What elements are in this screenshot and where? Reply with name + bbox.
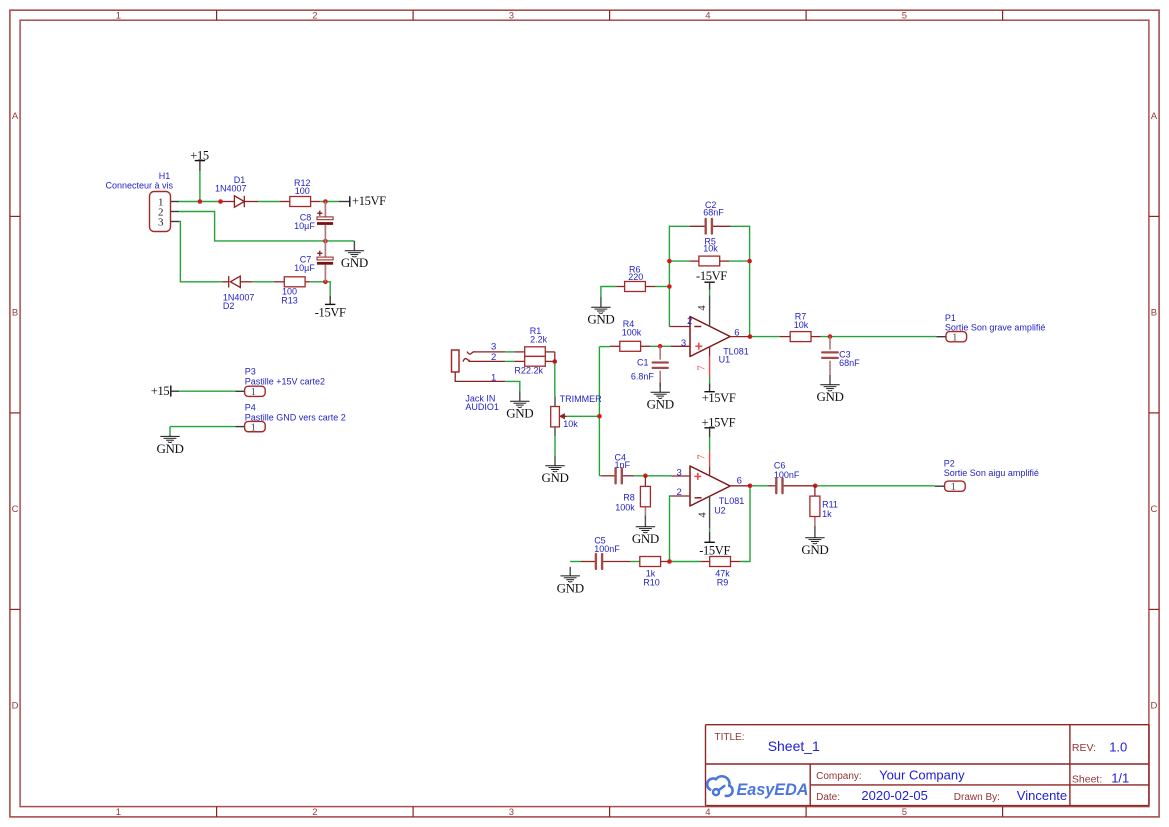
ground GND (jack): [506, 391, 533, 421]
junction feedback/R5 right: [747, 259, 752, 264]
svg-text:-15VF: -15VF: [315, 305, 346, 319]
junction R4/C1/U1 pin3: [658, 344, 663, 349]
svg-text:GND: GND: [541, 470, 568, 485]
U1 pin 7 (V+): [697, 347, 710, 378]
wire H1 pin3 to D2: [179, 222, 222, 282]
wire U2 pin4 to -15VF: [709, 528, 711, 532]
wire +15VF to U2 pin7: [709, 437, 711, 451]
junction C7/R13/-15VF node: [323, 280, 328, 285]
svg-text:100: 100: [295, 186, 310, 196]
svg-text:C: C: [12, 504, 19, 515]
pad P2 Sortie Son aigu amplifié: [935, 458, 1039, 493]
wire feedback to U2 pin2: [670, 496, 673, 562]
svg-text:2: 2: [491, 352, 496, 363]
potentiometer TRIMMER 10k: [551, 394, 602, 436]
svg-text:A: A: [12, 111, 19, 122]
junction R7/C3/P1 node: [828, 334, 833, 339]
wire R13 to -15VF node: [310, 282, 330, 296]
wire D2 to R13: [252, 281, 274, 283]
U2 pin 7 (V+): [697, 451, 710, 476]
svg-text:6.8nF: 6.8nF: [631, 371, 655, 381]
U1 pin 4 (V-): [697, 295, 709, 326]
wire R12 to +15VF node: [320, 201, 339, 203]
ground GND (R11): [801, 526, 828, 557]
wire R5 right: [729, 260, 750, 262]
svg-text:GND: GND: [557, 580, 584, 595]
wire R7 to P1: [821, 336, 937, 338]
svg-text:10k: 10k: [703, 244, 718, 254]
svg-text:-15VF: -15VF: [699, 544, 730, 558]
resistor R4 100k: [610, 319, 651, 351]
svg-text:P2: P2: [944, 458, 955, 468]
junction R1/R2/trimmer: [553, 359, 558, 364]
svg-text:EasyEDA: EasyEDA: [737, 781, 809, 799]
svg-text:4: 4: [698, 512, 709, 518]
capacitor C7 10uF polarized: [294, 241, 333, 282]
svg-text:2.2k: 2.2k: [530, 335, 548, 345]
ground GND (C3): [816, 375, 843, 404]
svg-text:Company:: Company:: [816, 771, 862, 782]
svg-text:2: 2: [677, 487, 682, 498]
svg-text:220: 220: [628, 272, 643, 282]
svg-text:Date:: Date:: [816, 792, 840, 803]
svg-text:GND: GND: [156, 441, 183, 456]
svg-text:10µF: 10µF: [294, 263, 315, 273]
svg-text:-15VF: -15VF: [696, 269, 727, 283]
ground GND (P4): [156, 427, 183, 456]
svg-text:C: C: [1150, 504, 1157, 515]
capacitor C6 100nF: [768, 461, 815, 494]
capacitor C2 68nF: [690, 200, 731, 234]
svg-text:GND: GND: [816, 389, 843, 404]
resistor R11 1k: [810, 486, 838, 526]
svg-text:Your Company: Your Company: [879, 767, 965, 782]
svg-text:H1: H1: [159, 171, 171, 181]
svg-text:68nF: 68nF: [839, 358, 860, 368]
svg-text:R10: R10: [643, 577, 660, 587]
wire +15 to pin1 net: [199, 171, 201, 202]
svg-text:Sortie Son grave amplifié: Sortie Son grave amplifié: [945, 322, 1046, 332]
capacitor C8 10uF polarized: [294, 202, 333, 242]
power flag -15VF (U2): [699, 532, 730, 558]
svg-text:Drawn By:: Drawn By:: [954, 792, 1000, 803]
svg-text:3: 3: [509, 10, 514, 21]
resistor R13 100: [274, 277, 310, 306]
svg-text:A: A: [1151, 111, 1158, 122]
EasyEDA logo: [707, 776, 808, 799]
wire trimmer wiper: [566, 415, 599, 417]
wire to R4: [599, 346, 610, 348]
svg-text:1: 1: [116, 10, 121, 21]
svg-text:P4: P4: [245, 402, 256, 412]
title block: [706, 725, 1150, 806]
capacitor C1 6.8nF: [631, 346, 668, 387]
connector H1 Connecteur à vis: [105, 171, 179, 232]
ground GND (trimmer): [541, 456, 568, 486]
junction feedback/R5 left: [667, 259, 672, 264]
svg-text:100nF: 100nF: [774, 470, 800, 480]
diode D2 1N4007: [222, 276, 254, 311]
net flag +15VF (power): [339, 194, 386, 208]
wire R1R2 node to trimmer: [554, 362, 556, 397]
junction U2 output node: [748, 484, 753, 489]
wire U2 out to C6: [750, 485, 768, 487]
svg-text:6: 6: [737, 475, 742, 486]
svg-text:1/1: 1/1: [1111, 770, 1129, 785]
svg-text:R13: R13: [281, 295, 298, 305]
svg-text:2: 2: [687, 316, 692, 327]
svg-text:U1: U1: [719, 354, 731, 364]
svg-text:Sheet_1: Sheet_1: [768, 738, 820, 754]
svg-text:3: 3: [677, 467, 682, 478]
svg-text:R2: R2: [514, 366, 526, 376]
resistor R12 100: [280, 178, 320, 207]
wire R6 to feedback node: [655, 286, 669, 288]
svg-text:1: 1: [251, 386, 257, 398]
svg-text:GND: GND: [632, 531, 659, 546]
junction C8/C7/GND rail: [323, 239, 328, 244]
svg-text:10µF: 10µF: [294, 221, 315, 231]
wire H1 pin2 to GND rail: [179, 212, 354, 241]
ground GND (power rail): [341, 241, 368, 270]
svg-text:4: 4: [705, 807, 710, 818]
wire C5 to R10: [631, 561, 640, 563]
wire +15 to P3: [179, 390, 235, 392]
svg-text:3: 3: [158, 217, 164, 229]
resistor R7 10k: [780, 311, 821, 341]
wire C2 to output vertical: [731, 226, 750, 336]
resistor R9 47k: [700, 557, 740, 588]
svg-text:100k: 100k: [622, 328, 642, 338]
svg-text:REV:: REV:: [1072, 742, 1096, 754]
power flag -15VF (U1): [696, 269, 727, 290]
pad P1 Sortie Son grave amplifié: [936, 313, 1045, 344]
audio jack AUDIO1 Jack IN: [452, 341, 506, 412]
svg-text:1.0: 1.0: [1109, 740, 1127, 755]
svg-text:Sortie Son aigu amplifié: Sortie Son aigu amplifié: [944, 468, 1039, 478]
power flag +15VF (U2): [702, 416, 736, 438]
svg-text:10k: 10k: [563, 419, 578, 429]
svg-text:7: 7: [697, 365, 708, 370]
svg-text:Sheet:: Sheet:: [1072, 773, 1102, 785]
svg-text:6: 6: [734, 327, 739, 338]
svg-text:2: 2: [312, 807, 317, 818]
svg-text:+15VF: +15VF: [702, 391, 736, 405]
svg-text:R8: R8: [623, 493, 635, 503]
svg-text:4: 4: [705, 10, 710, 21]
capacitor C3 68nF: [822, 337, 860, 375]
junction trimmer wiper node: [597, 414, 602, 419]
wire C6 to P2: [815, 485, 935, 487]
svg-text:U2: U2: [714, 505, 726, 515]
ground GND (C5): [557, 567, 584, 595]
wire jack pin1 to GND: [505, 381, 520, 391]
svg-text:GND: GND: [506, 406, 533, 421]
svg-text:7: 7: [697, 454, 708, 459]
U2 pin 4 (V-): [698, 496, 710, 528]
svg-text:P3: P3: [245, 367, 256, 377]
wire H1 pin1 to D1: [179, 201, 222, 203]
svg-text:1N4007: 1N4007: [215, 184, 247, 194]
wire R6 to GND: [601, 287, 617, 298]
wire vertical to C4: [599, 475, 601, 477]
svg-text:100k: 100k: [615, 502, 635, 512]
junction feedback/R6: [667, 284, 672, 289]
resistor R10 1k: [640, 557, 669, 588]
wire U1 out to R7: [750, 336, 780, 338]
junction pin1 wire joint: [218, 199, 223, 204]
wire -15VF to U1 pin4: [709, 290, 711, 296]
svg-text:5: 5: [902, 10, 907, 21]
svg-text:1: 1: [491, 373, 496, 384]
pad P3 Pastille +15V carte2: [236, 367, 325, 399]
svg-text:68nF: 68nF: [703, 208, 724, 218]
op-amp U2 TL081: [672, 466, 751, 515]
junction R10/R9/U2 pin2: [667, 559, 672, 564]
svg-text:10k: 10k: [794, 320, 809, 330]
svg-text:D: D: [1150, 700, 1157, 711]
svg-text:5: 5: [902, 807, 907, 818]
wire GND to C5: [570, 561, 581, 563]
svg-text:1: 1: [116, 807, 121, 818]
svg-text:AUDIO1: AUDIO1: [465, 402, 499, 412]
resistor R1 2.2k: [514, 326, 555, 362]
wire D1 to R12: [258, 201, 280, 203]
junction +15/pin1: [198, 199, 203, 204]
wire to R5 left: [669, 260, 690, 262]
wire GND to P4: [170, 426, 236, 428]
junction C6/R11/P2 node: [813, 484, 818, 489]
junction R12/C8/+15VF node: [323, 199, 328, 204]
svg-text:Vincente: Vincente: [1017, 788, 1067, 803]
svg-text:TRIMMER: TRIMMER: [560, 394, 602, 404]
svg-text:TITLE:: TITLE:: [715, 732, 745, 743]
ground GND (R8): [632, 515, 659, 546]
svg-text:+15VF: +15VF: [352, 194, 386, 208]
svg-text:B: B: [1151, 307, 1157, 318]
power flag +15: [190, 149, 209, 171]
svg-text:1: 1: [951, 481, 957, 493]
ground GND (R6): [587, 297, 614, 327]
svg-text:GND: GND: [647, 397, 674, 412]
wire trimmer to GND: [554, 436, 556, 456]
svg-text:3: 3: [681, 338, 686, 349]
capacitor C4 1nF: [602, 453, 635, 484]
svg-text:GND: GND: [341, 255, 368, 270]
svg-text:2.2k: 2.2k: [526, 366, 544, 376]
svg-text:Connecteur à vis: Connecteur à vis: [105, 181, 173, 191]
resistor R6 220: [616, 265, 655, 292]
svg-text:GND: GND: [587, 312, 614, 327]
wire jack pin2 to R2: [505, 360, 514, 362]
svg-text:GND: GND: [801, 542, 828, 557]
power flag +15VF (U1): [702, 383, 736, 405]
svg-text:2: 2: [312, 10, 317, 21]
svg-text:1: 1: [952, 332, 958, 344]
resistor R2 2.2k: [514, 356, 555, 375]
diode D1 1N4007: [215, 175, 258, 207]
svg-text:Pastille +15V carte2: Pastille +15V carte2: [245, 376, 325, 386]
svg-text:3: 3: [491, 341, 496, 352]
wire U1 pin7 to +15VF: [709, 377, 711, 383]
wire jack pin3 to R1: [505, 351, 514, 353]
svg-text:R9: R9: [717, 577, 729, 587]
ground GND (C1): [647, 383, 674, 412]
svg-text:1k: 1k: [822, 509, 832, 519]
resistor R8 100k: [615, 476, 650, 516]
wire R10 to R9: [668, 561, 700, 563]
svg-text:2020-02-05: 2020-02-05: [861, 788, 928, 803]
capacitor C5 100nF: [581, 535, 631, 569]
wire feedback left vertical to C2: [669, 226, 689, 326]
svg-text:B: B: [12, 307, 18, 318]
power flag +15 (P3): [151, 384, 180, 398]
svg-text:C6: C6: [774, 461, 786, 471]
pad P4 Pastille GND vers carte 2: [236, 402, 346, 433]
svg-text:1: 1: [251, 421, 257, 433]
svg-text:3: 3: [509, 807, 514, 818]
svg-text:D: D: [12, 700, 19, 711]
wire R4 to U1 pin3: [651, 345, 671, 347]
svg-text:Pastille GND vers carte 2: Pastille GND vers carte 2: [245, 413, 346, 423]
svg-text:C1: C1: [637, 358, 649, 368]
junction C4/R8/U2 pin3: [643, 474, 648, 479]
svg-text:100nF: 100nF: [594, 544, 620, 554]
svg-text:+15: +15: [151, 384, 170, 398]
power flag -15VF (power): [315, 296, 346, 320]
op-amp U1 TL081: [669, 316, 750, 364]
junction U1 output node: [748, 334, 753, 339]
wire U2 out to R9 feedback: [740, 486, 750, 562]
wire signal vertical: [598, 347, 600, 476]
svg-text:4: 4: [697, 305, 708, 311]
wire C4 to U2 pin3: [634, 475, 671, 477]
svg-text:D2: D2: [223, 301, 235, 311]
resistor R5 10k: [690, 236, 729, 266]
